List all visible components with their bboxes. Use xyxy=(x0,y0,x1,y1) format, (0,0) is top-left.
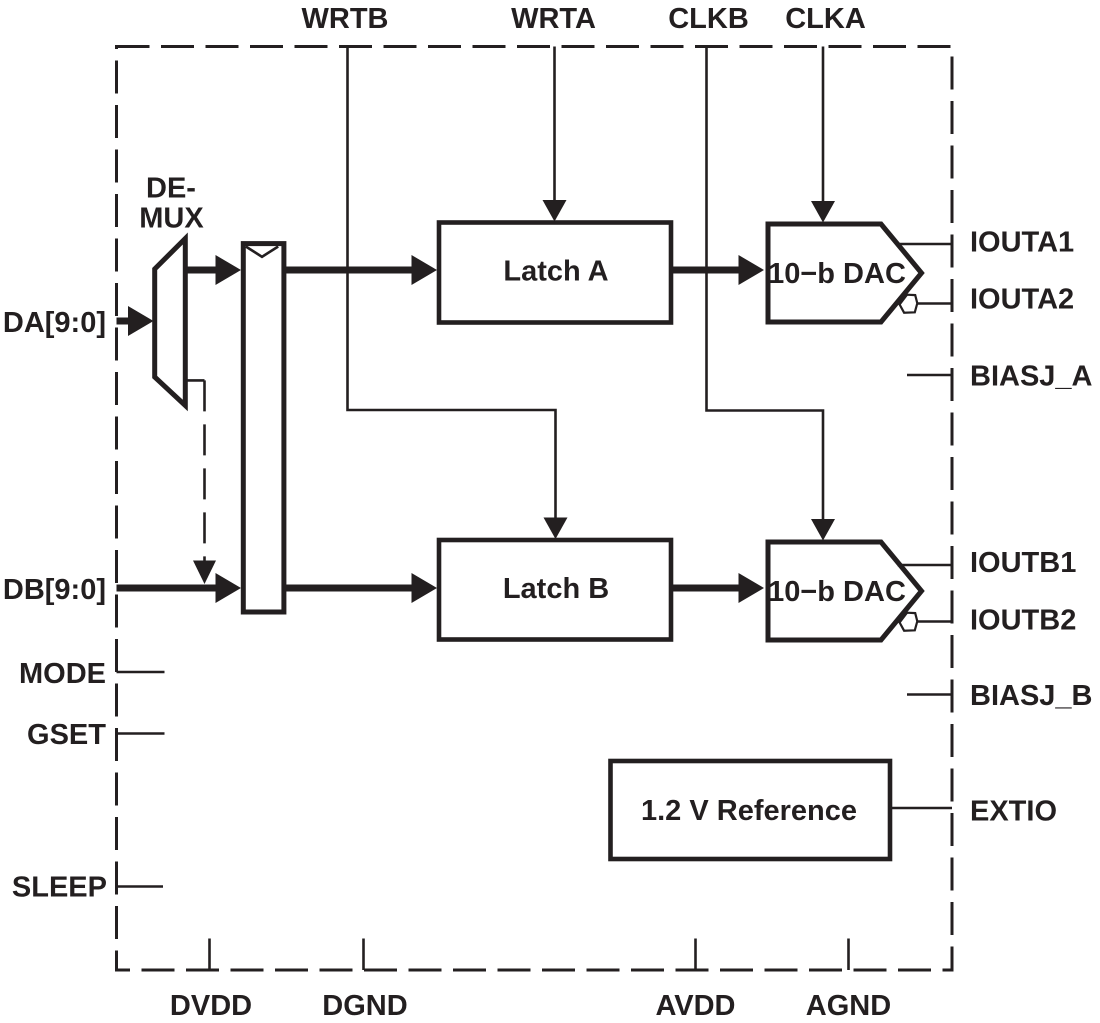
wire BIASJ_A xyxy=(907,374,952,377)
dac B (10-b DAC) xyxy=(768,542,922,640)
pin tick AGND xyxy=(847,939,850,971)
bus demux to input register xyxy=(185,255,241,285)
svg-text:Latch B: Latch B xyxy=(503,573,609,605)
wire CLKA to DAC A clock xyxy=(811,47,835,223)
svg-text:SLEEP: SLEEP xyxy=(12,872,107,904)
dac A (10-b DAC) xyxy=(768,224,922,322)
svg-text:DA[9:0]: DA[9:0] xyxy=(3,307,106,339)
pin label BIASJ_B xyxy=(970,680,1093,712)
pin label AVDD xyxy=(655,990,735,1022)
bus DB input to register xyxy=(117,573,242,603)
wire IOUTB1 xyxy=(898,564,953,567)
svg-text:IOUTA1: IOUTA1 xyxy=(970,227,1074,259)
pin label CLKB xyxy=(668,3,749,35)
wire SLEEP stub xyxy=(117,885,164,888)
pin label CLKA xyxy=(785,3,866,35)
wire BIASJ_B xyxy=(907,693,952,696)
pin label AGND xyxy=(806,990,891,1022)
svg-text:EXTIO: EXTIO xyxy=(970,796,1057,828)
bus register to Latch A xyxy=(284,255,437,285)
pin label WRTB xyxy=(302,3,389,35)
svg-text:DVDD: DVDD xyxy=(170,990,252,1022)
pin label WRTA xyxy=(511,3,596,35)
pin tick AVDD xyxy=(694,939,697,971)
wire IOUTB2 xyxy=(917,620,952,623)
pin label MODE xyxy=(19,658,106,690)
wire IOUTA1 xyxy=(898,243,953,246)
pin label BIASJ_A xyxy=(970,361,1093,393)
bus register to Latch B xyxy=(284,573,437,603)
pin label DGND xyxy=(322,990,407,1022)
pin label IOUTA1 xyxy=(970,227,1074,259)
demux DE-MUX xyxy=(139,173,204,406)
wire CLKB to DAC B clock xyxy=(707,47,836,541)
wire GSET stub xyxy=(117,732,165,735)
svg-text:MODE: MODE xyxy=(19,658,106,690)
svg-text:BIASJ_A: BIASJ_A xyxy=(970,361,1093,393)
svg-text:GSET: GSET xyxy=(27,719,106,751)
svg-text:10−b DAC: 10−b DAC xyxy=(768,576,906,608)
pin label DVDD xyxy=(170,990,252,1022)
svg-text:DB[9:0]: DB[9:0] xyxy=(3,574,106,606)
reference block 1.2 V Reference xyxy=(611,761,891,859)
latch B xyxy=(439,540,671,640)
wire EXTIO xyxy=(890,807,952,810)
wire demux lower output to DB bus (dashed) xyxy=(185,380,216,584)
svg-text:1.2 V Reference: 1.2 V Reference xyxy=(641,795,857,827)
svg-text:CLKA: CLKA xyxy=(785,3,866,35)
wire IOUTA2 xyxy=(917,302,952,305)
pin label SLEEP xyxy=(12,872,107,904)
wire WRTB to Latch B clock xyxy=(348,47,568,540)
bus Latch B to DAC B xyxy=(671,573,764,603)
svg-text:DE-: DE- xyxy=(146,173,196,205)
svg-text:WRTA: WRTA xyxy=(511,3,596,35)
chip boundary dashed border xyxy=(117,47,953,971)
pin label DA[9:0] xyxy=(3,307,106,339)
svg-text:10−b DAC: 10−b DAC xyxy=(768,258,906,290)
svg-text:Latch A: Latch A xyxy=(503,256,608,288)
svg-text:IOUTB1: IOUTB1 xyxy=(970,547,1076,579)
pin tick DGND xyxy=(362,939,365,971)
bus DA input arrow xyxy=(117,306,154,336)
svg-text:DGND: DGND xyxy=(322,990,407,1022)
pad hexagon on IOUTA2 xyxy=(900,295,918,313)
pin label DB[9:0] xyxy=(3,574,106,606)
svg-text:IOUTA2: IOUTA2 xyxy=(970,284,1074,316)
pin label IOUTB2 xyxy=(970,605,1076,637)
pin tick DVDD xyxy=(208,939,211,971)
wire MODE stub xyxy=(117,671,165,674)
svg-text:AGND: AGND xyxy=(806,990,891,1022)
pad hexagon on IOUTB2 xyxy=(900,613,918,631)
svg-text:CLKB: CLKB xyxy=(668,3,749,35)
svg-text:MUX: MUX xyxy=(139,203,204,235)
latch A xyxy=(439,223,671,323)
pin label IOUTB1 xyxy=(970,547,1076,579)
svg-text:AVDD: AVDD xyxy=(655,990,735,1022)
bus Latch A to DAC A xyxy=(671,255,764,285)
svg-text:IOUTB2: IOUTB2 xyxy=(970,605,1076,637)
svg-text:WRTB: WRTB xyxy=(302,3,389,35)
pin label EXTIO xyxy=(970,796,1057,828)
pin label GSET xyxy=(27,719,106,751)
wire WRTA to Latch A clock xyxy=(543,47,567,222)
pin label IOUTA2 xyxy=(970,284,1074,316)
svg-text:BIASJ_B: BIASJ_B xyxy=(970,680,1093,712)
input register xyxy=(243,244,284,612)
